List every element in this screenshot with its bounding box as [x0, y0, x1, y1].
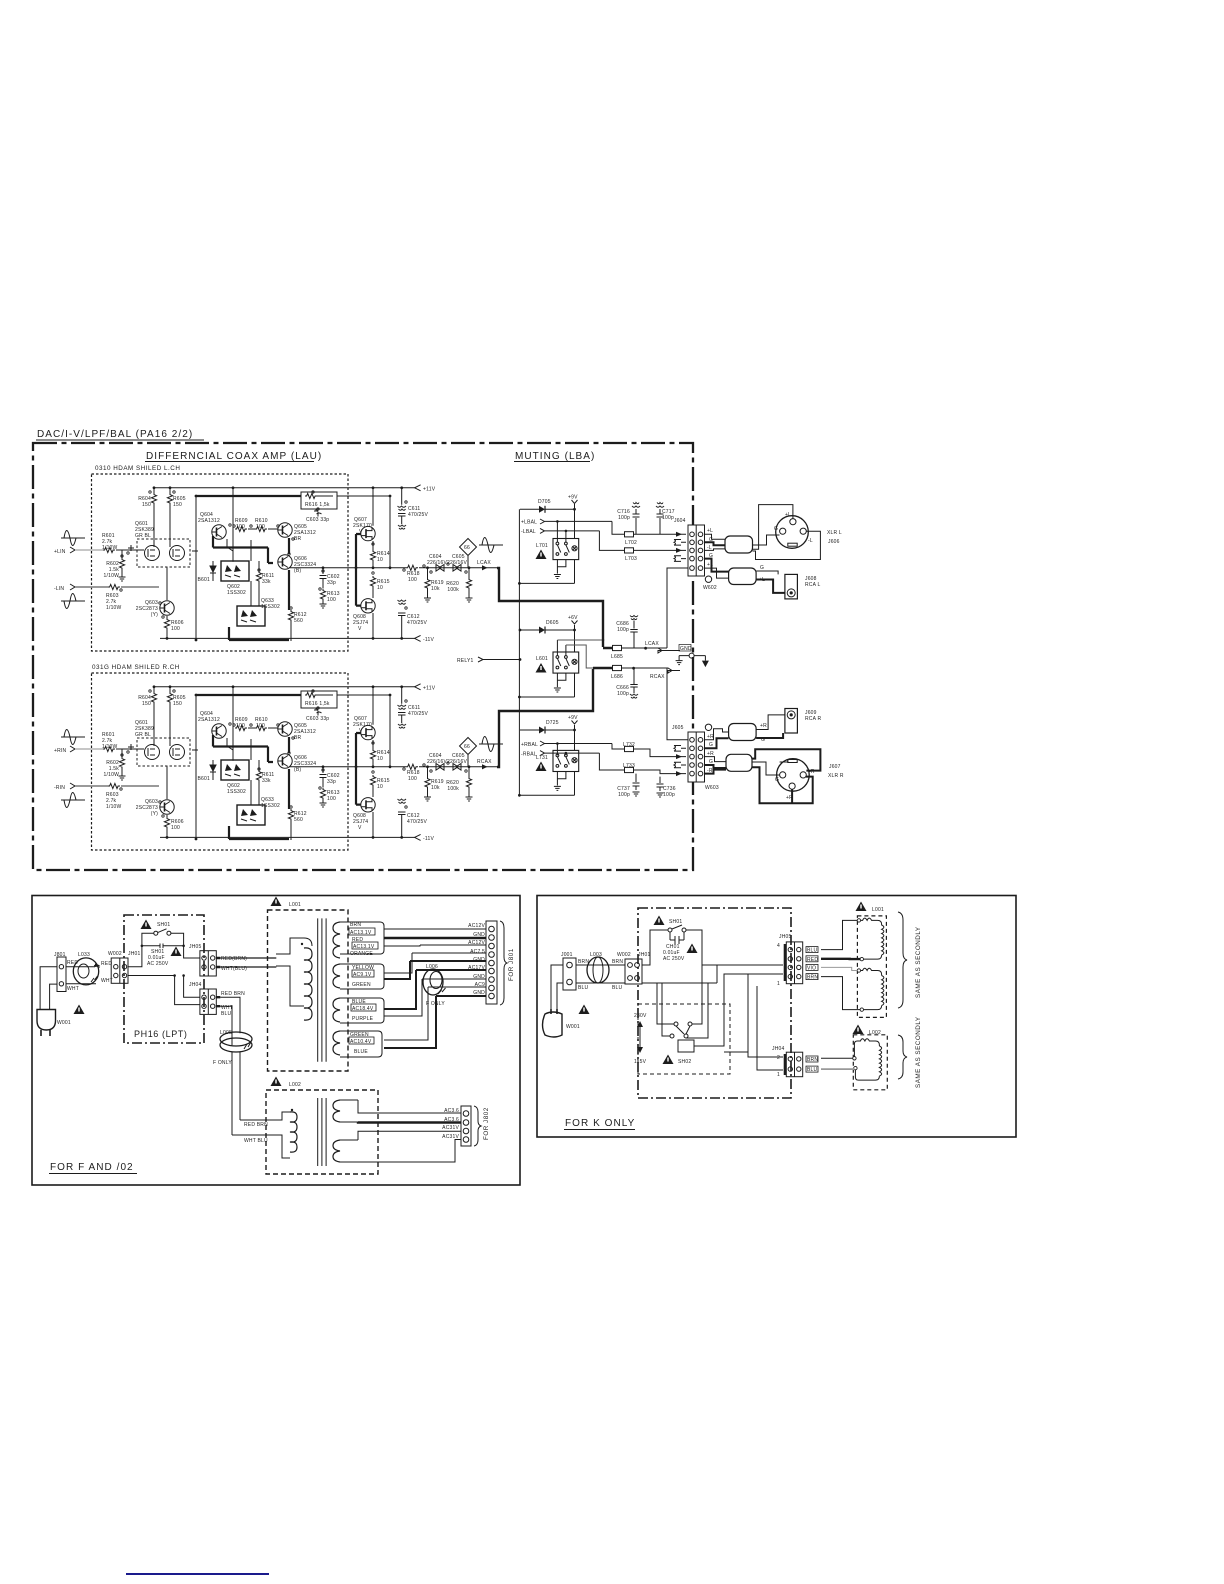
- svg-text:JH05: JH05: [189, 944, 201, 950]
- J801 pin header: [486, 921, 497, 1004]
- winding 2: [857, 969, 860, 972]
- diode D705: [520, 508, 539, 510]
- bottom navy line: [126, 1573, 269, 1575]
- svg-text:RCA L: RCA L: [805, 582, 820, 588]
- svg-text:J607: J607: [829, 764, 841, 770]
- svg-text:W002: W002: [108, 951, 122, 957]
- outer dash-dot border: [33, 443, 693, 870]
- svg-text:DIFFERNCIAL COAX AMP (LAU): DIFFERNCIAL COAX AMP (LAU): [146, 451, 322, 462]
- power plug W001: [543, 1012, 563, 1037]
- capacitor C737: [633, 774, 640, 790]
- svg-text:FOR J801: FOR J801: [508, 948, 515, 981]
- noise filter block R1: [729, 724, 757, 741]
- svg-text:D705: D705: [538, 499, 551, 505]
- noise filter block L: [725, 536, 753, 553]
- svg-text:+R: +R: [760, 723, 767, 729]
- big dash-dot box: [638, 908, 791, 1098]
- svg-text:100p: 100p: [662, 515, 674, 521]
- svg-text:RED BRN: RED BRN: [221, 991, 245, 997]
- svg-text:W001: W001: [566, 1024, 580, 1030]
- svg-text:RCA R: RCA R: [805, 716, 821, 722]
- switch SH02: [674, 1022, 678, 1026]
- wires JH05 to L001: [821, 920, 857, 949]
- warning: [74, 1005, 85, 1015]
- J802 pin header: [461, 1106, 471, 1146]
- svg-text:031G HDAM SHILED R.CH: 031G HDAM SHILED R.CH: [92, 664, 180, 671]
- svg-text:-RIN: -RIN: [54, 785, 65, 791]
- transformer L001: [271, 897, 282, 907]
- svg-text:RCAX: RCAX: [477, 759, 492, 765]
- svg-text:4: 4: [777, 943, 780, 949]
- svg-text:AC3.6: AC3.6: [444, 1108, 459, 1114]
- toroid L006: [423, 969, 443, 995]
- power plug W001: [37, 1010, 56, 1031]
- secondary L002 top: [333, 1100, 340, 1122]
- svg-text:115V: 115V: [634, 1059, 647, 1065]
- svg-text:BRN: BRN: [807, 975, 818, 981]
- svg-text:WHT: WHT: [67, 986, 79, 992]
- svg-text:L002: L002: [289, 1082, 301, 1088]
- svg-text:F ONLY: F ONLY: [213, 1060, 232, 1066]
- svg-text:2: 2: [777, 1055, 780, 1061]
- svg-text:VIO: VIO: [807, 965, 816, 971]
- svg-text:G: G: [709, 742, 713, 748]
- XLR R connector J607: [777, 759, 810, 792]
- primary coil L002: [232, 1112, 290, 1158]
- svg-text:RCAX: RCAX: [650, 674, 665, 680]
- svg-text:RED: RED: [807, 957, 818, 963]
- svg-text:L001: L001: [872, 907, 884, 913]
- svg-text:AC9: AC9: [475, 982, 485, 988]
- svg-text:L703: L703: [625, 556, 637, 562]
- svg-text:GND: GND: [473, 990, 485, 996]
- transformer L002 K: [853, 1025, 864, 1035]
- svg-text:AC13.1V: AC13.1V: [350, 930, 372, 936]
- bead L686: [613, 665, 622, 670]
- brace L001: [898, 912, 907, 1008]
- svg-text:SH01: SH01: [157, 922, 170, 928]
- svg-text:J606: J606: [828, 539, 840, 545]
- svg-text:D605: D605: [546, 620, 559, 626]
- relay L701: [553, 539, 579, 560]
- svg-text:MUTING (LBA): MUTING (LBA): [515, 451, 595, 462]
- inner dashed box SH02: [638, 1004, 730, 1074]
- svg-text:GREEN: GREEN: [352, 982, 371, 988]
- svg-text:JH01: JH01: [638, 952, 650, 958]
- secondary group 1: [333, 922, 340, 958]
- wires JH05 to transformer: [220, 958, 276, 967]
- svg-text:AC12V: AC12V: [468, 940, 485, 946]
- bold signal wires: [497, 568, 603, 647]
- PH16 dash-dot box: [124, 915, 204, 1043]
- svg-text:RELY1: RELY1: [457, 658, 473, 664]
- svg-text:LCAX: LCAX: [645, 641, 659, 647]
- svg-text:+L: +L: [707, 528, 713, 534]
- svg-text:FOR J802: FOR J802: [483, 1107, 490, 1140]
- bead L703: [625, 548, 634, 553]
- svg-text:-RBAL: -RBAL: [521, 752, 537, 758]
- svg-text:J605: J605: [672, 725, 684, 731]
- svg-text:L685: L685: [611, 654, 623, 660]
- R channel circuit: [61, 673, 503, 850]
- plug wires: [40, 967, 57, 1010]
- J604 left marks: [676, 534, 686, 550]
- svg-text:-L: -L: [808, 538, 813, 544]
- svg-text:DAC/I-V/LPF/BAL (PA16 2/2): DAC/I-V/LPF/BAL (PA16 2/2): [37, 429, 193, 440]
- svg-text:W002: W002: [617, 952, 631, 958]
- bead L732: [625, 746, 634, 751]
- W603: [705, 724, 711, 730]
- svg-text:BRN: BRN: [350, 922, 361, 928]
- svg-text:AC31V: AC31V: [442, 1125, 459, 1131]
- svg-text:SH02: SH02: [678, 1059, 691, 1065]
- svg-text:L731: L731: [536, 755, 548, 761]
- wires JH01 to JH04: [128, 976, 200, 1005]
- svg-text:JH05: JH05: [779, 934, 791, 940]
- svg-text:-LBAL: -LBAL: [521, 529, 536, 535]
- RCA L jack J608: [785, 574, 798, 599]
- svg-text:BLU: BLU: [221, 1011, 232, 1017]
- svg-text:SAME AS SECONDLY: SAME AS SECONDLY: [915, 926, 922, 998]
- secondary L002 bottom: [333, 1140, 340, 1162]
- svg-text:XLR L: XLR L: [827, 530, 842, 536]
- svg-text:BLU: BLU: [578, 985, 589, 991]
- svg-text:+6V: +6V: [568, 615, 578, 621]
- svg-text:AC17V: AC17V: [468, 965, 485, 971]
- L channel circuit: [61, 474, 503, 651]
- +9V arrow: [572, 500, 578, 504]
- svg-text:AC10.4V: AC10.4V: [350, 1039, 372, 1045]
- svg-text:JH04: JH04: [189, 982, 201, 988]
- svg-text:-LIN: -LIN: [54, 586, 64, 592]
- brace J802: [474, 1106, 481, 1146]
- capacitor C717: [656, 503, 664, 535]
- svg-text:BLU: BLU: [807, 948, 818, 954]
- svg-text:L732: L732: [623, 742, 635, 748]
- svg-text:XLR R: XLR R: [828, 773, 844, 779]
- svg-text:100p: 100p: [618, 792, 630, 798]
- svg-text:RED(BRN): RED(BRN): [221, 956, 247, 962]
- switch SH01: [141, 920, 152, 930]
- svg-text:SH01: SH01: [669, 919, 682, 925]
- wires relay to J604: [634, 533, 677, 535]
- noise filter block L2: [729, 568, 757, 585]
- relay drive rail: [518, 509, 520, 795]
- core lines: [318, 1098, 326, 1166]
- core lines: [318, 918, 326, 1061]
- svg-text:AC 250V: AC 250V: [663, 956, 685, 962]
- diode D725: [520, 729, 539, 731]
- svg-text:JH04: JH04: [772, 1046, 784, 1052]
- svg-text:SAME AS SECONDLY: SAME AS SECONDLY: [915, 1016, 922, 1088]
- svg-text:FOR K ONLY: FOR K ONLY: [565, 1118, 635, 1129]
- brace J801: [500, 921, 507, 1005]
- svg-text:L702: L702: [625, 540, 637, 546]
- svg-text:L686: L686: [611, 674, 623, 680]
- transformer L001 K: [856, 902, 867, 912]
- switch SH01: [654, 916, 665, 926]
- bead L685: [613, 645, 622, 650]
- XLR R wiring loops: [752, 749, 820, 770]
- svg-text:+L: +L: [785, 512, 791, 518]
- bead L702: [625, 532, 634, 537]
- svg-text:G: G: [760, 565, 764, 571]
- svg-text:BLU: BLU: [612, 985, 623, 991]
- svg-text:FOR F AND /02: FOR F AND /02: [50, 1162, 134, 1173]
- W602: [705, 576, 711, 582]
- svg-text:AC18.4V: AC18.4V: [352, 1006, 374, 1012]
- +6V arrow: [572, 621, 578, 625]
- wires JH04 down through L005: [220, 997, 240, 1045]
- svg-text:BRN: BRN: [612, 959, 623, 965]
- svg-text:BLU: BLU: [807, 1067, 818, 1073]
- secondary group 2: [333, 964, 340, 988]
- svg-text:W603: W603: [705, 785, 719, 791]
- svg-text:WHT BLU: WHT BLU: [244, 1138, 268, 1144]
- svg-text:L033: L033: [78, 952, 90, 958]
- svg-text:+RIN: +RIN: [54, 748, 67, 754]
- svg-text:G: G: [774, 526, 778, 532]
- svg-text:GND: GND: [473, 932, 485, 938]
- svg-text:AC7.5: AC7.5: [470, 949, 485, 955]
- svg-text:AC9.1V: AC9.1V: [353, 972, 372, 978]
- svg-text:W602: W602: [703, 585, 717, 591]
- svg-text:GND: GND: [473, 957, 485, 963]
- capacitor CH01: [670, 932, 684, 944]
- relay L601: [553, 652, 579, 673]
- svg-text:RED BRN: RED BRN: [244, 1122, 268, 1128]
- noise filter block R2: [726, 754, 752, 771]
- RCA R jack J609: [785, 709, 798, 734]
- svg-text:230V: 230V: [634, 1013, 647, 1019]
- svg-text:LCAX: LCAX: [477, 560, 491, 566]
- J605 left marks: [674, 746, 686, 752]
- primary coil L001: [276, 938, 312, 1006]
- relay L731: [553, 750, 579, 771]
- svg-text:L001: L001: [289, 902, 301, 908]
- svg-text:GND: GND: [473, 974, 485, 980]
- wires JH04 to L002: [821, 1057, 853, 1059]
- toroid L033: [73, 958, 98, 985]
- secondary group 4: [333, 1031, 340, 1055]
- svg-text:ORANGE: ORANGE: [350, 951, 373, 957]
- svg-text:JH01: JH01: [128, 951, 140, 957]
- svg-text:RED: RED: [101, 961, 112, 967]
- wires top bus: [642, 950, 783, 983]
- +9V arrow: [572, 721, 578, 725]
- svg-text:G: G: [775, 777, 779, 783]
- svg-text:AC31V: AC31V: [442, 1134, 459, 1140]
- capacitor C716: [632, 503, 640, 535]
- svg-text:L601: L601: [536, 656, 548, 662]
- svg-text:+RBAL: +RBAL: [521, 742, 538, 748]
- secondary group 3: [333, 998, 340, 1022]
- capacitor SH01 0.01uF: [142, 944, 184, 949]
- svg-text:J001: J001: [561, 952, 573, 958]
- svg-text:PH16 (LPT): PH16 (LPT): [134, 1029, 188, 1039]
- svg-text:100p: 100p: [617, 627, 629, 633]
- svg-text:L701: L701: [536, 543, 548, 549]
- svg-text:W001: W001: [57, 1020, 71, 1026]
- svg-text:0310 HDAM SHILED L.CH: 0310 HDAM SHILED L.CH: [95, 465, 180, 472]
- svg-text:AC13.1V: AC13.1V: [353, 944, 375, 950]
- svg-text:L005: L005: [220, 1030, 232, 1036]
- toroid L003: [587, 957, 609, 983]
- svg-text:+LIN: +LIN: [54, 549, 66, 555]
- svg-text:BRN: BRN: [807, 1057, 818, 1063]
- middle caps and beads: [630, 616, 638, 649]
- XLR wiring loops: [752, 505, 793, 550]
- brace L002: [898, 1035, 907, 1079]
- wires to J802: [358, 1100, 461, 1113]
- svg-text:+LBAL: +LBAL: [521, 520, 537, 526]
- svg-text:100p: 100p: [617, 691, 629, 697]
- secondary wires to J801 through L006: [384, 928, 486, 930]
- svg-text:1: 1: [777, 981, 780, 987]
- svg-text:AC12V: AC12V: [468, 923, 485, 929]
- toroid L005: [220, 1038, 252, 1052]
- transformer L002: [271, 1077, 282, 1087]
- svg-text:L733: L733: [623, 763, 635, 769]
- svg-text:+9V: +9V: [568, 495, 578, 501]
- wires beads to connectors: [658, 568, 688, 648]
- svg-text:PURPLE: PURPLE: [352, 1016, 374, 1022]
- XLR L connector J606: [776, 516, 809, 549]
- winding 1: [857, 919, 860, 922]
- svg-text:AC3.6: AC3.6: [444, 1117, 459, 1123]
- capacitor C736: [657, 777, 664, 791]
- svg-text:L003: L003: [590, 952, 602, 958]
- svg-text:AC 250V: AC 250V: [147, 961, 169, 967]
- svg-text:1: 1: [777, 1072, 780, 1078]
- diode D605: [520, 629, 539, 631]
- bead L733: [625, 767, 634, 772]
- svg-text:100p: 100p: [618, 515, 630, 521]
- svg-text:D725: D725: [546, 720, 559, 726]
- svg-text:BLUE: BLUE: [354, 1049, 368, 1055]
- svg-text:J604: J604: [674, 518, 686, 524]
- svg-text:+9V: +9V: [568, 715, 578, 721]
- wires to JH04: [748, 986, 783, 1070]
- svg-text:100p: 100p: [663, 792, 675, 798]
